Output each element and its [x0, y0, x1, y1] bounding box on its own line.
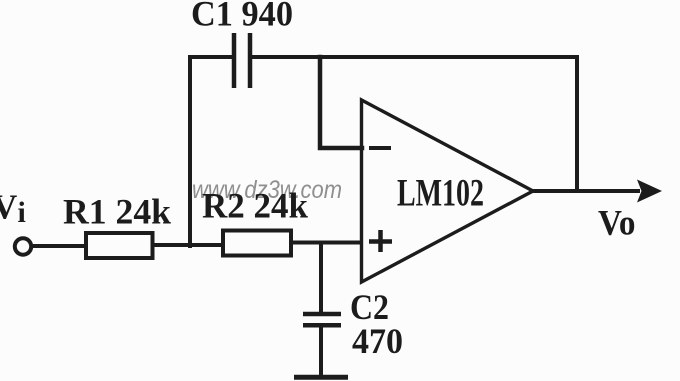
capacitor C1: [234, 33, 250, 88]
wire top-right from C1 right plate to output node: [250, 57, 577, 191]
capacitor C2: [303, 314, 341, 325]
op-amp U1: [362, 100, 534, 282]
svg-text:i: i: [18, 196, 26, 229]
resistor R1: [86, 233, 153, 258]
label C2: [350, 287, 389, 327]
label Vo: [598, 203, 636, 243]
svg-text:Vo: Vo: [598, 203, 636, 243]
inverting input minus sign: [369, 146, 391, 150]
wire C2 branch down: [319, 243, 323, 314]
wire C2 to ground: [319, 325, 323, 377]
output arrow: [637, 180, 662, 203]
wire R2 to non-inverting input: [290, 241, 362, 245]
wire top-left from C1 left plate to junction node: [190, 57, 233, 246]
svg-text:V: V: [0, 188, 17, 227]
resistor R2: [223, 231, 291, 256]
svg-text:C1 940: C1 940: [191, 0, 293, 34]
svg-text:470: 470: [352, 321, 403, 361]
svg-text:R2 24k: R2 24k: [202, 186, 308, 226]
wire inverting-input branch: [320, 57, 362, 148]
wire input Vi to R1: [31, 244, 86, 248]
label LM102: [397, 172, 484, 215]
wire output: [533, 189, 640, 193]
label C1 940: [191, 0, 293, 34]
label R1 24k: [63, 192, 171, 232]
ground: [294, 375, 348, 380]
watermark www.dz3w.com: [192, 176, 342, 204]
label R2 24k: [202, 186, 308, 226]
terminal Vi: [15, 238, 31, 254]
svg-text:LM102: LM102: [397, 172, 484, 215]
label Vi: [0, 188, 26, 230]
label 470: [352, 321, 403, 361]
wire R1 to R2 through node: [152, 243, 223, 247]
svg-text:R1 24k: R1 24k: [63, 192, 171, 232]
non-inverting input plus sign: [369, 230, 392, 252]
